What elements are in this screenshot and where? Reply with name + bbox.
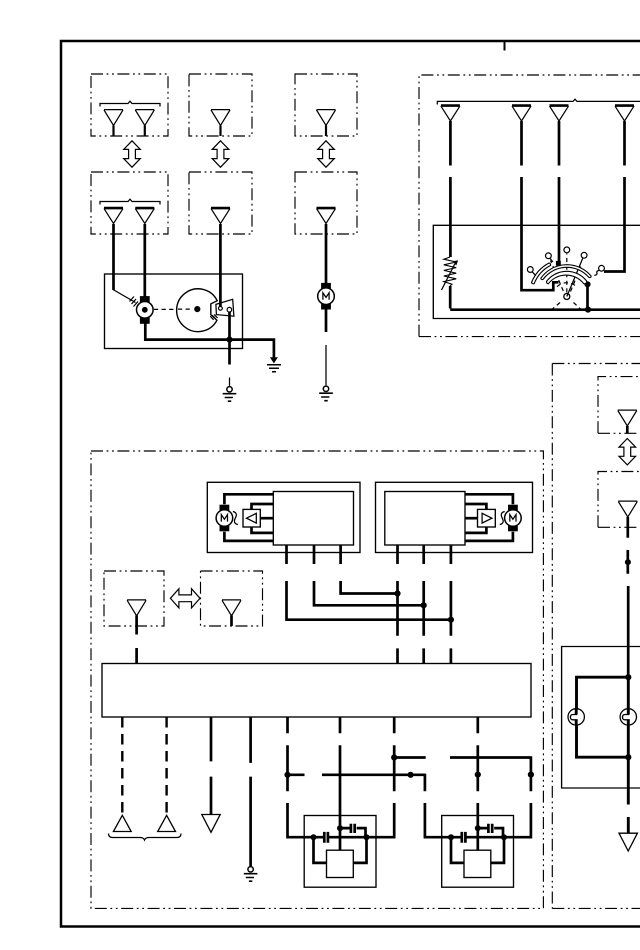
rail 1 (394, 756, 532, 838)
pin stem (219, 126, 221, 137)
relay block (102, 664, 531, 718)
harness bracket (100, 101, 160, 106)
junction (448, 617, 454, 623)
frame tick mark (504, 41, 506, 51)
connector triangle (550, 106, 569, 121)
lamp feed wire (626, 517, 629, 677)
pin stem (325, 126, 327, 137)
wire from pin 4 (604, 121, 625, 272)
left actuator motor (216, 505, 233, 532)
connector triangle (135, 208, 154, 223)
wire motor top (224, 494, 273, 504)
connector box row1 col1 (91, 74, 168, 136)
connector box E2 (598, 472, 640, 528)
rheostat zigzag (444, 257, 456, 286)
wire sensor mid (260, 517, 273, 520)
left actuator assembly box (207, 482, 360, 552)
washer motor output wire (325, 309, 328, 332)
output wire 1 dashed (121, 717, 123, 815)
wire sensor bottom (465, 527, 486, 533)
contact arc inner (546, 271, 586, 283)
wire box A to relay block (135, 626, 138, 664)
igniter module 1 box (304, 816, 376, 888)
module 2 wiring (442, 836, 514, 839)
terminal triangle up (158, 815, 176, 831)
offpage triangle down (619, 833, 637, 851)
mating arrow col3 (318, 141, 335, 167)
connector triangle (211, 110, 230, 126)
park switch contact 2 (227, 307, 232, 312)
combination switch outline box (419, 75, 640, 337)
mating arrow E (619, 439, 636, 465)
wire sensor bottom (252, 527, 274, 533)
module 2 core right leg (491, 837, 504, 863)
connector triangle (512, 106, 531, 121)
wire break resume (229, 378, 231, 386)
chassis ground (270, 357, 278, 363)
left sensor box (243, 509, 260, 527)
module 1 wiring (304, 836, 376, 839)
wiper motor brush bottom (140, 317, 150, 323)
offpage triangle down (202, 815, 220, 833)
wire diagonal to motor (113, 290, 136, 303)
left ECU output 2 (314, 545, 424, 605)
junction left (311, 834, 317, 840)
rheostat arrow (442, 264, 456, 291)
connector triangle (211, 208, 230, 223)
connector box row1 col2 (189, 74, 252, 136)
module 1 core right leg (353, 837, 366, 863)
pin stem (135, 616, 138, 627)
right sensor box (478, 509, 496, 527)
output wire 6 module 1 feed (339, 717, 342, 850)
connector box row2 col2 (189, 172, 252, 234)
rail junction (585, 307, 591, 313)
wire motor bottom (465, 532, 513, 541)
capacitor branch (340, 828, 366, 837)
module 2 core (464, 850, 491, 877)
terminal T1 (527, 267, 533, 273)
pin stem (112, 126, 114, 137)
capacitor main left (462, 832, 466, 843)
pin stem (144, 126, 146, 137)
stationary contact square (556, 261, 561, 266)
wire to washer motor (325, 224, 328, 284)
park switch contact 1 (219, 306, 223, 310)
terminal T4 (581, 252, 587, 258)
cam center dot (194, 306, 200, 312)
wire sensor top (465, 504, 486, 509)
junction right (364, 834, 370, 840)
wire sensor top (252, 504, 274, 509)
wiper dashed arc (557, 283, 576, 287)
park switch body (216, 299, 234, 316)
module 1 core left leg (314, 837, 327, 863)
bus rail (450, 308, 640, 311)
capacitor branch (478, 828, 503, 837)
wire sensor mid (465, 517, 478, 520)
connector triangle (441, 106, 460, 121)
connector triangle (618, 501, 637, 517)
right ECU block (385, 492, 465, 546)
junction right (501, 834, 507, 840)
motor ground wire (145, 324, 274, 358)
junction left (448, 834, 454, 840)
connector triangle (104, 110, 123, 126)
connector triangle (222, 600, 241, 616)
wire to wiper motor feed 2 (143, 224, 146, 297)
splice hatch (130, 297, 139, 307)
output wire 4 (249, 717, 252, 866)
lamp main leg (627, 677, 630, 833)
rail1 drop junction (528, 772, 534, 778)
rotary switch wiper pivot (564, 294, 570, 300)
left ECU output 1 (287, 545, 452, 620)
module 1 feed junction (337, 825, 343, 831)
washer motor (318, 283, 335, 310)
connector box row1 col3 (295, 74, 357, 136)
right ECU output 3 (450, 545, 453, 664)
floating junction (475, 772, 481, 778)
lamp unit box (562, 647, 640, 789)
shaft dashed link (154, 308, 176, 310)
lamp branch (577, 677, 629, 757)
left coupling (233, 512, 238, 525)
left ECU block (273, 492, 353, 546)
ground G2 (223, 387, 237, 402)
output wire 2 dashed (165, 717, 167, 815)
junction (226, 337, 232, 343)
connector triangle (135, 110, 154, 126)
mating arrow col1 (124, 141, 141, 167)
module 1 core (327, 850, 354, 877)
cam dash to dot (178, 308, 193, 310)
rheostat output wire (449, 286, 452, 309)
riser junction (584, 281, 590, 287)
park switch output wire (228, 312, 231, 365)
connector triangle (317, 208, 336, 223)
junction (394, 590, 400, 596)
harness bracket (437, 99, 640, 104)
capacitor main left (324, 832, 328, 843)
output wire 7 (376, 717, 395, 838)
taillight system outline box (552, 364, 640, 909)
right ECU output 1 (396, 545, 399, 664)
mating arrow col2 (212, 141, 229, 167)
wire from pin 1 (449, 121, 452, 257)
connector triangle (618, 410, 637, 426)
contact arc upper-left (532, 263, 551, 284)
rail 2 (288, 774, 442, 839)
lamp L2 (620, 709, 636, 725)
right ECU output 2 (422, 545, 425, 664)
brace under terminals (109, 834, 182, 841)
wire motor bottom (224, 532, 273, 541)
wire break resume (325, 345, 327, 385)
junction (421, 602, 427, 608)
wire motor top (465, 494, 513, 504)
wiper motor body (137, 302, 154, 319)
connector triangle (104, 208, 123, 223)
wiper motor assembly box (105, 274, 243, 349)
relay connector box B (201, 571, 263, 626)
left ECU output 3 (341, 545, 398, 594)
ground G4 (244, 867, 258, 882)
wiper lever (567, 256, 584, 297)
right sensor triangle (482, 513, 492, 523)
wire to wiper motor feed 1 (112, 224, 115, 290)
contact arc outer (541, 265, 591, 280)
wiper motor shaft dot (142, 307, 148, 313)
igniter module 2 box (442, 816, 514, 888)
wire from pin 3 (558, 121, 561, 262)
wire to park switch (219, 224, 222, 306)
switch inner box (433, 225, 640, 318)
pin stem (230, 616, 233, 627)
headlight system outline box (91, 451, 543, 908)
rail2 junction (408, 772, 414, 778)
right actuator assembly box (376, 482, 533, 552)
connector box row2 col1 (91, 172, 168, 234)
pin stem (626, 426, 629, 434)
junction rail2 start (284, 772, 290, 778)
wiper dashed rays (551, 254, 582, 310)
connector triangle (615, 106, 634, 121)
module 2 core left leg (451, 837, 464, 863)
ground G3 (319, 386, 333, 401)
mating arrow AB (170, 589, 200, 608)
connector box row2 col3 (295, 172, 357, 234)
output wire 3 (210, 717, 213, 815)
terminal T3 (564, 247, 570, 253)
left sensor triangle (247, 513, 257, 523)
output wire 5 to module 1 (286, 717, 304, 838)
cam notch hatch (210, 314, 217, 319)
lamp branch junction top (625, 674, 631, 680)
lamp L1 (568, 709, 584, 725)
terminal T5 (599, 265, 605, 271)
connector triangle (127, 600, 146, 616)
module 2 feed junction (475, 825, 481, 831)
wiper motor brush top (140, 296, 150, 302)
feed junction (625, 559, 631, 565)
connector triangle (317, 110, 336, 126)
terminal T2 (546, 253, 552, 259)
connector box E1 (598, 377, 640, 434)
lamp branch junction bottom (625, 754, 631, 760)
output wire 8 module 2 feed (476, 717, 479, 850)
right coupling (500, 512, 505, 525)
terminal triangle up (113, 815, 131, 831)
junction rail1 start (391, 754, 397, 760)
park cam (177, 289, 218, 332)
relay connector box A (104, 571, 164, 626)
switch common riser (586, 284, 589, 309)
wire from pin 2 (522, 121, 559, 290)
right actuator motor (505, 505, 522, 532)
harness bracket (100, 199, 160, 204)
